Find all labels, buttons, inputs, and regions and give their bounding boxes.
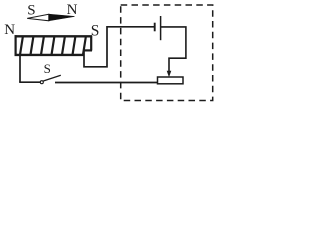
wire: battery to right corner, down, jog left, down to rheostat arrow: [161, 27, 186, 71]
solenoid turn 5: [62, 37, 65, 55]
dashed enclosure box: [121, 5, 213, 101]
svg-text:S: S: [27, 2, 35, 18]
solenoid L1 left edge: [15, 35, 17, 56]
switch S pivot circle: [40, 81, 43, 84]
wire: bottom left horizontal to switch: [19, 81, 40, 83]
solenoid L1 right edge: [90, 36, 92, 51]
switch S blade (open): [43, 75, 61, 81]
svg-text:S: S: [91, 23, 100, 40]
rheostat R body: [158, 77, 184, 84]
solenoid turn 7: [83, 37, 86, 55]
battery positive plate (long): [160, 16, 162, 40]
svg-text:S: S: [44, 61, 51, 76]
solenoid turn 6: [73, 37, 76, 55]
svg-text:N: N: [4, 22, 15, 38]
solenoid turn 2: [31, 37, 34, 55]
solenoid L1 bottom edge: [15, 54, 85, 56]
solenoid L1 bottom-right jog: [83, 49, 92, 51]
solenoid L1 top edge: [15, 35, 93, 37]
battery negative plate (short): [154, 23, 156, 32]
solenoid turn 1: [20, 37, 23, 55]
wire: solenoid right terminal step (down, right, up to battery line): [84, 27, 154, 67]
svg-text:N: N: [67, 2, 78, 18]
wire: solenoid left terminal down: [19, 55, 21, 82]
compass needle (N right black half): [49, 14, 75, 21]
solenoid turn 4: [52, 37, 55, 55]
rheostat slider arrowhead: [167, 71, 172, 78]
solenoid turn 3: [41, 37, 44, 55]
compass needle (S left white half): [27, 14, 49, 21]
wire: switch to rheostat: [55, 82, 158, 84]
